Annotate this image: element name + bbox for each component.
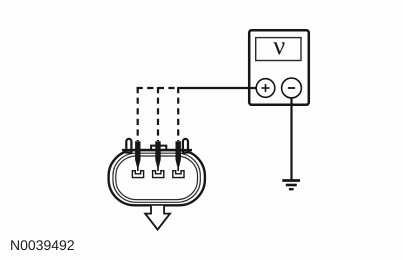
pin 3 terminal socket (173, 171, 184, 178)
connector ear right (183, 139, 188, 153)
wire dashed horizontal run (137, 87, 178, 89)
pin 2 blade (155, 141, 160, 171)
voltmeter display (256, 38, 301, 61)
wire solid lead to positive terminal (178, 87, 259, 89)
ground (282, 181, 300, 190)
connector ear left (126, 139, 131, 153)
pin 1 blade (135, 141, 140, 171)
figure number label N0039492 (11, 240, 74, 250)
positive terminal (256, 79, 275, 98)
negative terminal (282, 78, 302, 98)
pin 3 blade (176, 141, 181, 171)
pin 2 terminal socket (153, 171, 164, 178)
connector shell top edge over tab and ears (122, 149, 192, 151)
wire dashed drop pin 3 (177, 87, 179, 141)
connector body inner line 1 (113, 153, 200, 202)
wire dashed drop pin 1 (137, 87, 139, 141)
connector body outer shell (109, 150, 205, 205)
wire negative lead to ground (290, 95, 292, 181)
connector center tab (151, 146, 166, 151)
voltmeter label nu (273, 42, 284, 54)
connector body inner line 2 (116, 156, 198, 200)
voltmeter U1 body (249, 30, 309, 105)
wire dashed drop pin 2 (157, 87, 159, 141)
pin 1 terminal socket (132, 171, 143, 178)
connector keyway arrow (145, 206, 170, 230)
